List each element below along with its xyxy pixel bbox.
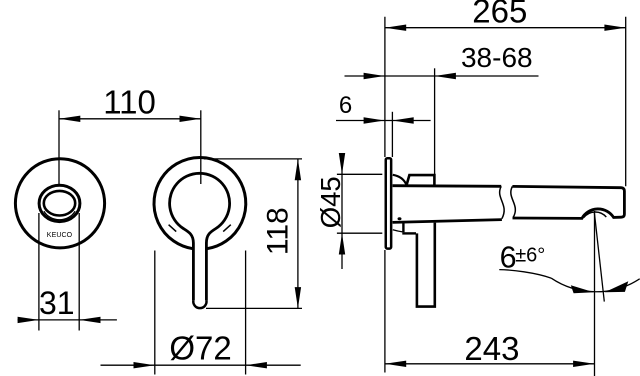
dimension line 38-68 — [345, 75, 539, 77]
arrowhead 38-68 right — [435, 73, 456, 79]
svg-text:110: 110 — [103, 84, 156, 121]
extension line diameter 45 top — [337, 173, 382, 175]
arrowhead 118 top — [295, 159, 301, 180]
arrowhead diameter 45 top — [339, 153, 345, 174]
spout right piece outline with end and outlet bump — [512, 186, 624, 218]
lever handle bar (side view) — [417, 223, 435, 307]
svg-text:Ø72: Ø72 — [169, 330, 231, 367]
extension line diameter 45 bottom — [337, 232, 382, 234]
leader line from angle text — [499, 270, 551, 279]
outlet inner lip arc — [584, 212, 607, 218]
knob inner ellipse — [44, 191, 75, 216]
arrowhead 31 right — [79, 317, 100, 323]
centerline of escutcheon — [58, 110, 60, 186]
centerline of lever handle — [200, 110, 202, 184]
dimension line diameter 45 (vertical) — [341, 156, 343, 270]
svg-text:243: 243 — [464, 330, 519, 367]
lever stem rounded bottom cap — [193, 300, 206, 308]
dimension line 6 — [336, 120, 431, 122]
svg-text:265: 265 — [472, 0, 527, 29]
svg-text:±6°: ±6° — [515, 244, 545, 266]
indicator tick left — [169, 225, 177, 232]
indicator tick right — [223, 225, 231, 232]
cartridge cap on spout — [407, 175, 435, 185]
svg-text:KEUCO: KEUCO — [47, 232, 73, 239]
svg-text:6: 6 — [339, 92, 352, 119]
arrowhead 6 left — [364, 117, 385, 123]
arrowhead diameter 45 bottom — [339, 233, 345, 254]
spout top edge left of break — [393, 184, 502, 187]
arrowhead 110 right — [180, 116, 201, 122]
wall plate (side view) — [386, 158, 391, 248]
arrowhead 6 right — [392, 117, 413, 123]
extension line 31 right — [78, 213, 80, 331]
svg-text:38-68: 38-68 — [461, 42, 533, 73]
angle dimension arc — [551, 278, 640, 292]
angle reference slanted line 6 degrees — [594, 213, 604, 302]
angle arc arrowhead right — [605, 281, 629, 292]
arrowhead 265 right — [604, 25, 625, 31]
arrowhead 110 left — [59, 116, 80, 122]
extension line 265 right — [625, 17, 627, 187]
set screw mark — [398, 217, 402, 220]
top fillet plate to cap — [393, 175, 407, 185]
extension line diameter 72 right — [245, 251, 247, 375]
break wavy line left — [500, 186, 505, 218]
extension line 38-68 — [434, 68, 436, 174]
dimension line 265 — [385, 27, 626, 29]
lever handle outer circle (interrupted by stem) — [154, 157, 246, 248]
extension line 31 left — [38, 213, 40, 331]
knob lip arc — [44, 211, 75, 220]
dimension line 243 — [385, 363, 595, 365]
arrowhead diameter 72 left — [134, 362, 155, 368]
extension line 118 bottom — [206, 307, 302, 309]
knob outer ellipse — [39, 185, 80, 221]
extension line diameter 72 left — [154, 251, 156, 375]
lever handle inner ring and stem keyhole outline — [170, 173, 230, 300]
dimension line 31 — [18, 319, 117, 321]
wall face extension line above plate — [384, 17, 386, 157]
svg-text:31: 31 — [39, 285, 75, 321]
arrowhead 38-68 left — [364, 73, 385, 79]
arrowhead 265 left — [385, 25, 406, 31]
wall face extension line below plate — [384, 250, 386, 373]
dimension line 110 — [59, 118, 201, 120]
dimension line diameter 72 — [101, 364, 301, 366]
arrowhead 31 left — [18, 317, 39, 323]
arrowhead 118 bottom — [295, 287, 301, 308]
extension line 118 top — [204, 158, 302, 160]
svg-text:118: 118 — [262, 207, 295, 255]
body step horizontal ledge — [402, 232, 416, 234]
break wavy line right — [511, 186, 516, 217]
outlet vertical reference line / extension 243 — [594, 211, 596, 376]
spout bottom edge left of break — [393, 220, 502, 223]
arrowhead 243 right — [573, 361, 594, 367]
plate front extension line — [391, 112, 393, 157]
bottom fillet thin line plate to step — [393, 230, 403, 232]
body step vertical under spout — [402, 223, 404, 233]
escutcheon outer circle (front view) — [15, 159, 104, 248]
dimension line 118 — [297, 159, 299, 309]
angle arc arrowhead left — [571, 285, 594, 293]
arrowhead 243 left — [385, 361, 406, 367]
arrowhead diameter 72 right — [246, 362, 267, 368]
svg-text:6: 6 — [500, 240, 517, 274]
svg-text:Ø45: Ø45 — [315, 176, 346, 228]
